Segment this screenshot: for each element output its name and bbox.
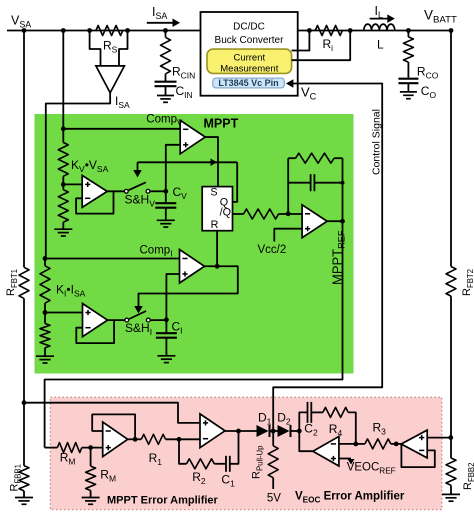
svg-text:DC/DC: DC/DC xyxy=(233,22,265,33)
svg-text:Vcc/2: Vcc/2 xyxy=(258,244,287,256)
svg-text:Measurement: Measurement xyxy=(220,64,278,75)
svg-text:CompI: CompI xyxy=(140,244,173,258)
svg-text:LT3845 Vc Pin: LT3845 Vc Pin xyxy=(218,78,278,88)
svg-text:/Q: /Q xyxy=(220,207,231,219)
svg-text:Buck Converter: Buck Converter xyxy=(215,35,285,46)
svg-text:S&HI: S&HI xyxy=(125,321,152,337)
svg-text:R: R xyxy=(211,219,219,231)
svg-text:MPPT Error Amplifier: MPPT Error Amplifier xyxy=(107,495,219,507)
svg-text:MPPT: MPPT xyxy=(204,117,239,131)
svg-text:Control Signal: Control Signal xyxy=(371,109,383,175)
svg-text:L: L xyxy=(377,38,384,52)
svg-text:5V: 5V xyxy=(267,492,281,504)
svg-text:Current: Current xyxy=(233,53,265,64)
svg-text:S: S xyxy=(210,187,217,199)
